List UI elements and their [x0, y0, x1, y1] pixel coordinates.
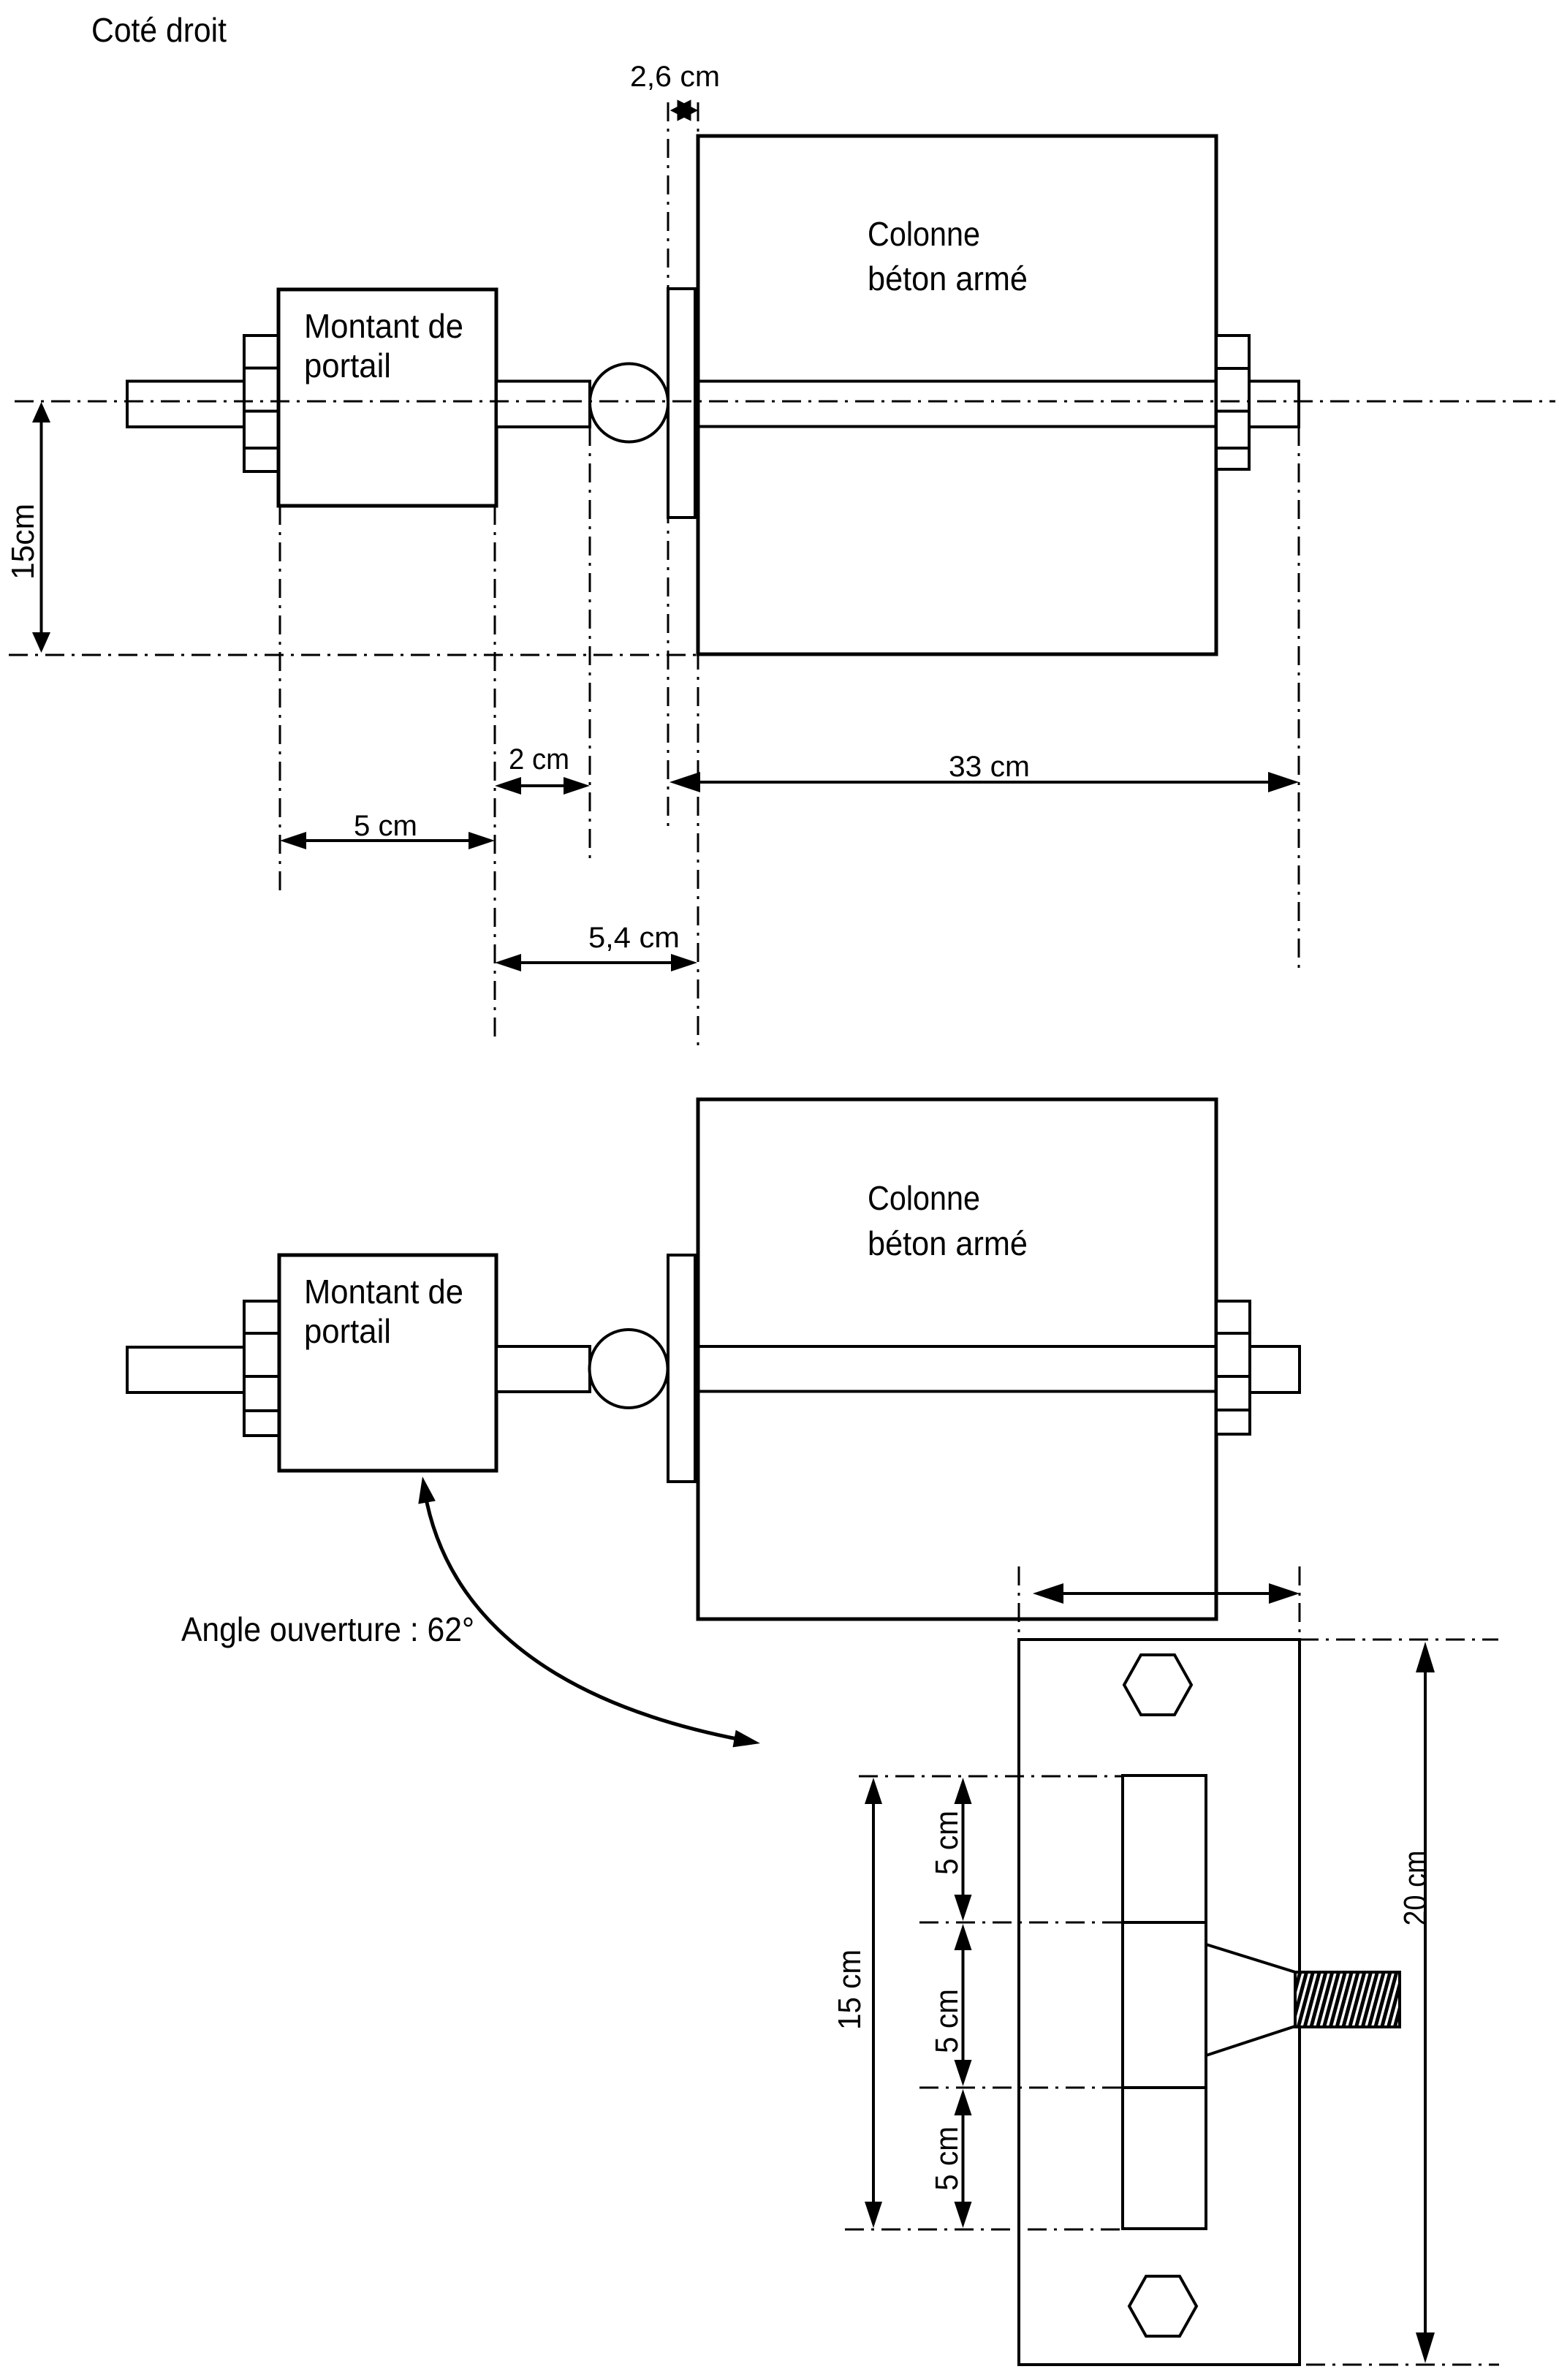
bottom hexagon bolt hole: [1129, 2276, 1196, 2336]
svg-text:Colonne: Colonne: [868, 1179, 980, 1217]
svg-text:Colonne: Colonne: [868, 215, 980, 253]
33 cm dimension: [680, 781, 1289, 784]
rod between box and ball joint (top view): [496, 382, 590, 428]
hinge body bar (front view): [1123, 1775, 1206, 2229]
svg-text:béton armé: béton armé: [868, 1224, 1028, 1262]
curved opening-angle arrow: [425, 1491, 753, 1742]
threaded rod left end (top view): [127, 382, 244, 428]
svg-text:Montant de: Montant de: [304, 307, 463, 345]
centerline extension: vertical dash-dot at plate left x=914: [667, 102, 670, 827]
svg-text:portail: portail: [304, 346, 391, 384]
pin cone: [1206, 1944, 1295, 2055]
ball joint circle (view 2): [590, 1330, 668, 1408]
centerline extension: vertical dash-dot at column left x=955: [697, 102, 699, 1051]
right hex nut (top view): [1216, 336, 1249, 469]
hinge plate (front view, bottom detail): [1019, 1640, 1300, 2365]
svg-text:5,4 cm: 5,4 cm: [588, 922, 680, 954]
left hex nut (view 2): [244, 1301, 280, 1436]
unlabeled width dimension above plate: [1043, 1592, 1289, 1595]
5 cm dimension segment 3: [962, 2099, 965, 2218]
top hexagon bolt hole: [1124, 1655, 1191, 1715]
horizontal dash-dot datum line y=896 (15cm lower reference): [9, 654, 697, 656]
datum dash-dot line y=2630: [919, 1922, 1123, 1924]
15cm vertical dimension (top view): [40, 406, 43, 650]
5,4 cm dimension: [505, 961, 687, 964]
svg-text:5 cm: 5 cm: [929, 1811, 965, 1875]
15 cm vertical dimension (detail): [872, 1788, 875, 2218]
extension dash-dot at plate left x=1394: [1018, 1566, 1020, 1640]
extension dash-dot at plate bottom y=3235: [1306, 2364, 1499, 2366]
anchor plate (view 2): [668, 1255, 695, 1482]
Montant de portail box (view 2): [279, 1255, 496, 1471]
5 cm dimension: [290, 839, 485, 842]
20 cm vertical dimension: [1424, 1652, 1427, 2353]
extension dash-dot at plate top y=2243: [1300, 1639, 1498, 1641]
svg-text:20 cm: 20 cm: [1397, 1851, 1433, 1926]
threaded rod right end (view 2): [1250, 1346, 1300, 1392]
centerline extension: vertical dash-dot at box1 right x=677: [494, 506, 496, 1043]
rod lines through column (view 2): [698, 1346, 1216, 1392]
svg-text:béton armé: béton armé: [868, 259, 1028, 297]
svg-text:5 cm: 5 cm: [354, 810, 417, 842]
svg-text:Angle ouverture : 62°: Angle ouverture : 62°: [181, 1610, 474, 1648]
threaded pin (hatched): [1295, 1972, 1400, 2027]
5 cm dimension segment 1: [962, 1788, 965, 1911]
svg-text:portail: portail: [304, 1312, 391, 1350]
left hex nut (top view): [244, 336, 280, 471]
2,6 cm dimension star (compressed arrows): [672, 101, 697, 120]
svg-text:Montant de: Montant de: [304, 1273, 463, 1311]
column (top view): Colonne béton armé: [698, 136, 1216, 654]
svg-text:15 cm: 15 cm: [832, 1949, 868, 2030]
datum dash-dot line y=2430: [859, 1775, 1123, 1778]
hinge body bar segment lines: [1123, 1922, 1206, 2088]
extension dash-dot at plate right x=1778: [1299, 1566, 1301, 1640]
column (side view 2): Colonne béton armé: [698, 1099, 1216, 1619]
svg-text:2 cm: 2 cm: [509, 743, 569, 776]
threaded rod right end (top view): [1249, 382, 1299, 428]
datum dash-dot line y=3050: [845, 2229, 1123, 2231]
datum dash-dot line y=2856: [919, 2087, 1123, 2089]
svg-text:5 cm: 5 cm: [929, 2126, 965, 2191]
2 cm dimension: [505, 784, 580, 787]
rod between box and ball joint (view 2): [496, 1346, 590, 1392]
centerline extension: vertical dash-dot at rod right end x=1777: [1298, 427, 1300, 970]
svg-text:33 cm: 33 cm: [949, 751, 1030, 783]
svg-text:Coté droit: Coté droit: [91, 11, 227, 49]
anchor plate (top view): [668, 289, 695, 518]
centerline extension: vertical dash-dot at box1 left x=383: [279, 506, 281, 894]
ball joint circle (top view): [590, 364, 668, 442]
svg-text:5 cm: 5 cm: [929, 1989, 965, 2053]
5 cm dimension segment 2: [962, 1934, 965, 2076]
main centerline y=549: [15, 401, 1555, 403]
right hex nut (view 2): [1216, 1301, 1250, 1434]
Montant de portail box (top view): [278, 289, 496, 506]
rod lines through column (top view): [698, 382, 1216, 427]
svg-text:15cm: 15cm: [5, 504, 41, 580]
svg-text:2,6 cm: 2,6 cm: [630, 61, 720, 93]
threaded rod left end (view 2): [127, 1347, 244, 1392]
centerline extension: vertical dash-dot at rod end x=807: [589, 427, 591, 859]
